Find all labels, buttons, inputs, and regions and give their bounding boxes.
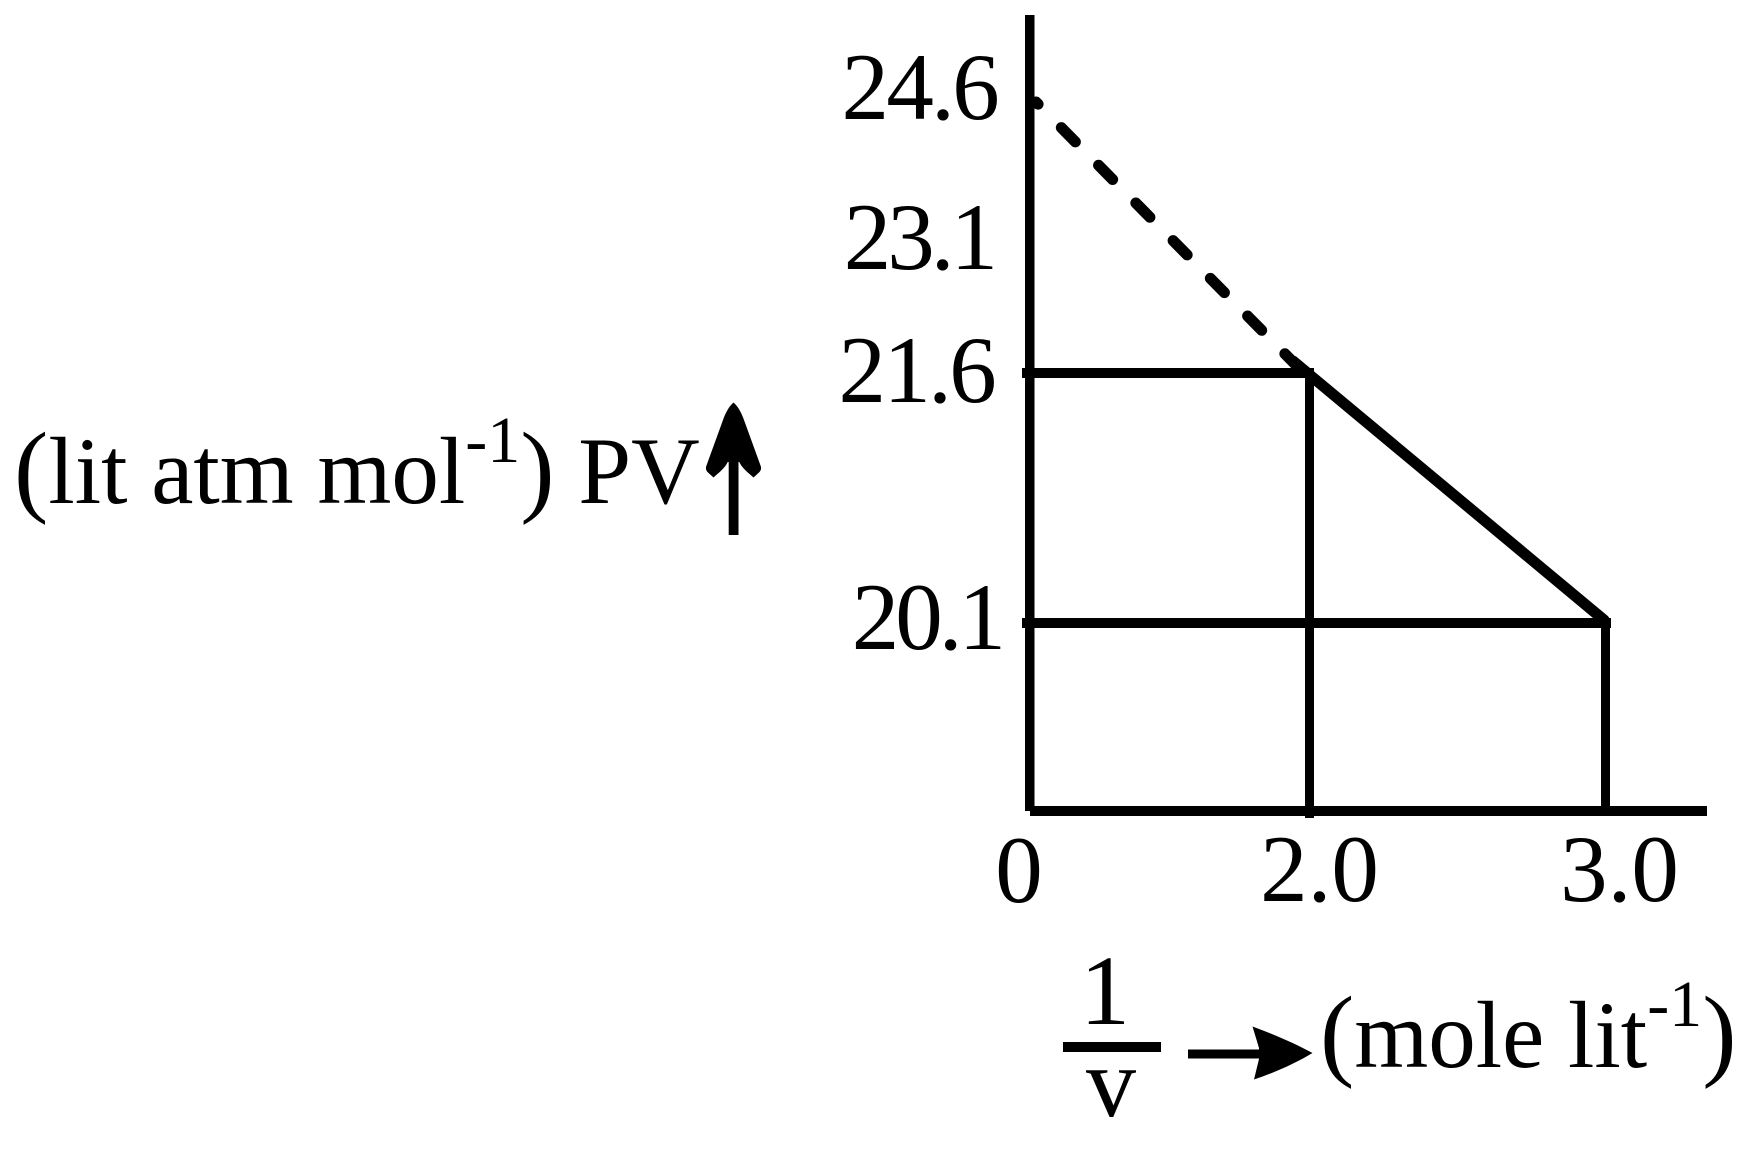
horizontal line at 21.6	[1022, 368, 1314, 378]
vertical line at x=3.0	[1601, 618, 1610, 816]
right arrow shaft	[1188, 1050, 1260, 1059]
x-axis	[1030, 806, 1707, 816]
right arrow head	[1253, 1027, 1313, 1080]
up arrow shaft	[729, 460, 739, 535]
svg-text:(lit atm mol-1) PV: (lit atm mol-1) PV	[14, 404, 700, 526]
svg-text:21.6: 21.6	[839, 317, 995, 423]
svg-text:3.0: 3.0	[1560, 816, 1679, 922]
up arrow next to PV	[706, 403, 761, 478]
svg-text:2.0: 2.0	[1260, 816, 1379, 922]
solid diagonal from (2.0,21.6) to (3.0,20.1)	[1293, 361, 1604, 620]
vertical line at x=2.0	[1305, 368, 1314, 818]
svg-text:0: 0	[995, 817, 1043, 923]
svg-text:23.1: 23.1	[844, 184, 994, 290]
svg-text:20.1: 20.1	[852, 564, 1002, 670]
svg-text:24.6: 24.6	[842, 34, 998, 140]
y-axis	[1025, 15, 1035, 811]
svg-text:v: v	[1086, 1027, 1136, 1138]
dashed extrapolation line	[1036, 102, 1296, 365]
fraction bar	[1063, 1042, 1161, 1052]
horizontal line at 20.1	[1022, 618, 1611, 628]
